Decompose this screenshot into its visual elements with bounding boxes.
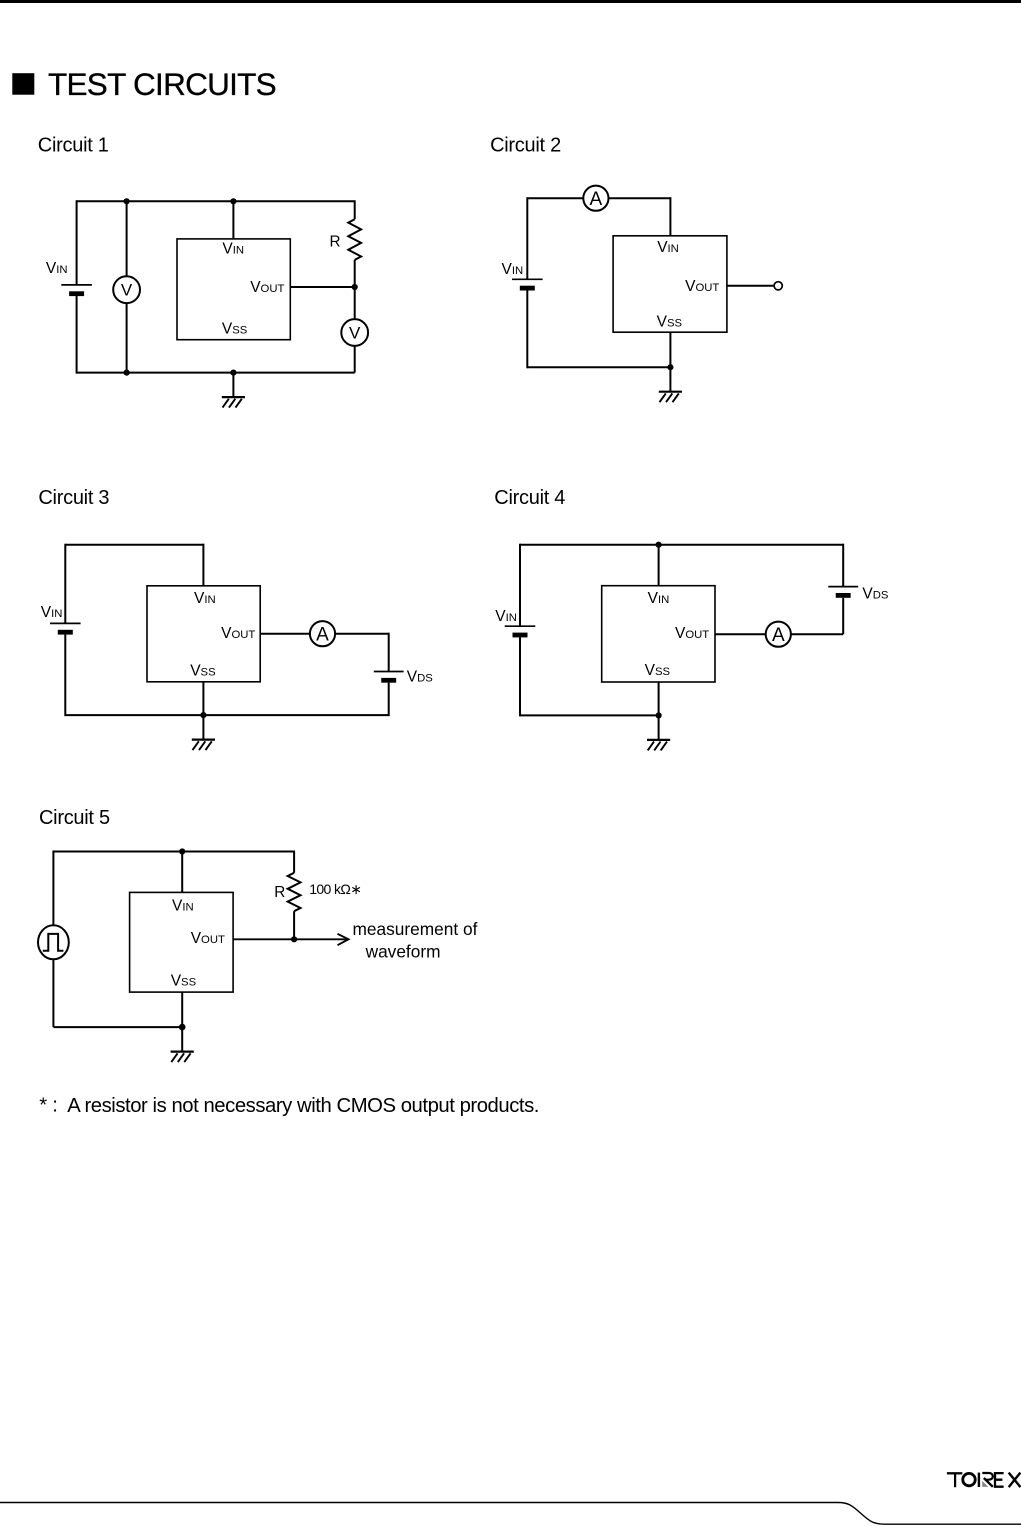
wire C2 VSS pin	[669, 332, 671, 367]
junction C1 bottom-left	[124, 370, 130, 376]
ground C4	[647, 715, 670, 750]
svg-text:R: R	[274, 884, 285, 901]
battery VIN C3	[50, 623, 81, 634]
wire C1 resistor branch lower	[354, 260, 356, 373]
svg-text:VOUT: VOUT	[675, 625, 709, 642]
svg-text:V: V	[121, 281, 133, 300]
junction C1 top-left	[124, 198, 130, 204]
voltmeter V output C1	[341, 319, 368, 346]
battery VDS C3	[374, 672, 404, 683]
wire C1 resistor branch upper	[354, 200, 356, 219]
svg-text:A: A	[772, 625, 785, 646]
TOREX logo	[947, 1473, 1021, 1488]
ground C2	[659, 367, 682, 402]
wire C4 VSS pin	[658, 682, 660, 715]
junction C4 bottom	[656, 712, 662, 718]
svg-text:VIN: VIN	[172, 898, 194, 915]
svg-text:TEST CIRCUITS: TEST CIRCUITS	[48, 66, 276, 102]
junction C5 bottom	[179, 1024, 186, 1031]
wire C3 VIN pin	[202, 544, 204, 586]
wire C1 top rail	[77, 200, 355, 202]
IC box C4	[602, 586, 715, 682]
wire C1 VIN pin	[232, 201, 234, 239]
svg-text:VIN: VIN	[648, 590, 670, 607]
junction C2 bottom	[667, 364, 673, 370]
svg-text:measurement of: measurement of	[353, 919, 478, 939]
svg-text:VSS: VSS	[645, 662, 671, 679]
wire C2 top rail	[527, 197, 670, 199]
junction C5 top	[179, 848, 185, 854]
battery VIN C2	[512, 279, 543, 290]
svg-text:VOUT: VOUT	[250, 279, 284, 296]
svg-text:VIN: VIN	[502, 261, 524, 278]
svg-text:VOUT: VOUT	[191, 930, 225, 947]
wire C4 VIN pin	[658, 545, 660, 586]
wire C5 left vertical	[52, 851, 54, 1028]
wire C5 VSS pin	[181, 992, 183, 1027]
svg-text:VIN: VIN	[194, 590, 216, 607]
svg-text:VOUT: VOUT	[221, 625, 255, 642]
voltmeter V input C1	[113, 276, 140, 303]
ground C5	[171, 1027, 194, 1062]
svg-text:Circuit 3: Circuit 3	[38, 487, 109, 509]
svg-text:VSS: VSS	[190, 663, 216, 680]
wire C4 right vertical lower	[842, 598, 844, 634]
ground C3	[192, 715, 215, 750]
wire C3 top rail	[65, 544, 203, 546]
wire C2 VOUT pin	[727, 285, 774, 287]
svg-text:VSS: VSS	[222, 321, 248, 338]
svg-text:VOUT: VOUT	[685, 278, 719, 295]
ammeter A C2	[583, 186, 608, 211]
wire C5 resistor branch lower	[293, 911, 295, 939]
svg-text:waveform: waveform	[365, 942, 441, 962]
svg-text:A: A	[316, 624, 329, 645]
svg-text:A resistor is not necessary wi: A resistor is not necessary with CMOS ou…	[67, 1095, 539, 1117]
junction C1 vout node	[352, 284, 358, 290]
battery VIN C1	[61, 285, 92, 296]
wire C3 VSS pin	[202, 682, 204, 715]
resistor R C5	[288, 873, 301, 911]
wire C3 left vertical lower	[64, 635, 66, 717]
svg-text:*: *	[39, 1095, 47, 1117]
wire C4 VOUT to ammeter	[715, 633, 843, 635]
wire C5 output with arrow	[233, 938, 347, 940]
svg-text:Circuit 2: Circuit 2	[490, 135, 561, 157]
svg-text:VDS: VDS	[407, 669, 434, 686]
IC box C2	[613, 236, 727, 332]
wire C4 left vertical lower	[519, 637, 521, 716]
junction C3 bottom	[200, 712, 206, 718]
wire C5 resistor branch upper	[293, 851, 295, 873]
svg-text:A: A	[590, 189, 603, 210]
svg-text:Circuit 5: Circuit 5	[39, 807, 110, 829]
wire C4 bottom rail	[520, 714, 659, 716]
arrowhead C5	[338, 934, 349, 945]
wire C5 VIN pin	[181, 852, 183, 893]
svg-text:VSS: VSS	[171, 972, 197, 989]
wire C1 voltmeter branch	[126, 201, 128, 372]
wire C2 left vertical lower	[526, 291, 528, 369]
svg-text::: :	[52, 1095, 58, 1117]
wire C4 right vertical upper	[842, 544, 844, 587]
svg-text:VSS: VSS	[657, 313, 683, 330]
svg-text:Circuit 1: Circuit 1	[38, 135, 109, 157]
junction C1 bottom-mid	[230, 370, 236, 376]
wire C3 right vertical lower	[388, 683, 390, 716]
wire C1 left vertical lower	[76, 296, 78, 374]
battery VDS C4	[828, 587, 858, 598]
wire C1 left vertical upper	[76, 200, 78, 285]
wire C2 left vertical upper	[526, 197, 528, 279]
wire C2 bottom rail	[527, 366, 670, 368]
wire C3 VOUT to ammeter	[260, 633, 389, 635]
resistor R C1	[348, 219, 361, 260]
svg-text:VIN: VIN	[657, 239, 679, 256]
pulse generator C5	[38, 925, 69, 959]
open terminal C2	[774, 282, 782, 290]
wire C3 right vertical upper	[388, 633, 390, 672]
wire C4 left vertical upper	[519, 544, 521, 627]
wire C3 bottom rail	[65, 714, 388, 716]
battery VIN C4	[505, 626, 536, 637]
svg-text:VIN: VIN	[222, 241, 244, 258]
wire C4 top rail	[520, 544, 843, 546]
junction C4 top	[656, 542, 662, 548]
svg-text:Circuit 4: Circuit 4	[494, 487, 565, 509]
heading bullet square	[12, 73, 34, 95]
wire C1 VOUT pin	[290, 286, 354, 288]
junction C1 top-mid	[230, 198, 236, 204]
wire C3 left vertical upper	[64, 544, 66, 624]
IC box C3	[147, 586, 260, 682]
svg-text:VIN: VIN	[41, 604, 63, 621]
svg-text:100 kΩ∗: 100 kΩ∗	[309, 881, 361, 897]
IC box C1	[177, 239, 290, 340]
wire C5 top rail	[53, 851, 294, 853]
junction C5 output node	[291, 936, 297, 942]
ammeter A C4	[766, 622, 791, 647]
svg-text:VIN: VIN	[495, 608, 517, 625]
ground C1	[222, 373, 245, 408]
wire C1 bottom rail	[77, 372, 355, 374]
wire C2 VIN pin	[669, 197, 671, 236]
svg-text:VIN: VIN	[46, 260, 68, 277]
wire C5 bottom rail	[53, 1026, 182, 1028]
ammeter A C3	[310, 621, 335, 646]
svg-text:VDS: VDS	[862, 585, 889, 602]
svg-text:R: R	[330, 234, 341, 251]
IC box C5	[130, 892, 234, 992]
svg-text:V: V	[349, 323, 361, 342]
